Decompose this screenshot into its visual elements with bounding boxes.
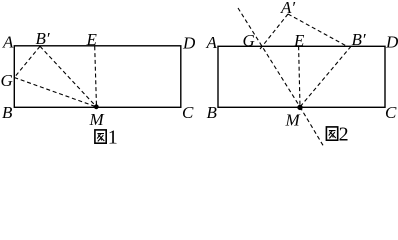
rectangle ABCD (fig1)	[14, 46, 181, 108]
svg-text:G: G	[1, 71, 13, 90]
svg-text:E: E	[293, 31, 305, 50]
svg-text:B′: B′	[36, 29, 50, 48]
svg-text:D: D	[385, 33, 398, 52]
dashed crease extension below M (fig2)	[300, 107, 324, 147]
svg-text:E: E	[86, 30, 98, 49]
dashed segment B'G (fig1)	[14, 46, 40, 77]
svg-text:C: C	[385, 103, 397, 122]
dashed crease line through G down to M (fig2)	[238, 8, 300, 107]
svg-text:B: B	[207, 103, 218, 122]
svg-text:A: A	[2, 33, 14, 52]
svg-text:B: B	[2, 103, 13, 122]
dashed segment GM (fig1)	[14, 78, 96, 107]
point M dot (fig2)	[297, 105, 302, 110]
dashed segment B'M (fig2)	[300, 46, 351, 107]
svg-text:C: C	[182, 103, 194, 122]
dashed segment A'G (fig2)	[260, 14, 288, 49]
svg-text:1: 1	[108, 126, 118, 148]
rectangle ABCD (fig2)	[218, 46, 385, 107]
caption 图2	[326, 123, 348, 145]
point M dot (fig1)	[94, 104, 99, 109]
svg-text:M: M	[285, 111, 301, 130]
svg-text:B′: B′	[352, 30, 366, 49]
svg-text:M: M	[89, 110, 105, 129]
caption 图1	[95, 126, 118, 148]
svg-text:G: G	[243, 31, 255, 50]
dashed segment EM (fig2)	[299, 46, 300, 107]
dashed segment A'B' (fig2)	[288, 14, 347, 46]
dashed segment EM (fig1)	[95, 46, 97, 107]
dashed segment B'M (fig1)	[40, 46, 97, 107]
svg-text:A: A	[206, 33, 218, 52]
svg-text:A′: A′	[280, 0, 295, 17]
svg-text:2: 2	[339, 123, 349, 145]
svg-text:D: D	[182, 34, 196, 53]
